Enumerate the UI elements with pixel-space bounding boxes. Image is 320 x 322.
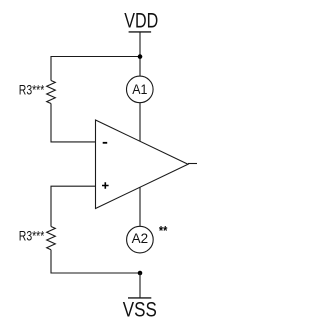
ammeter A1 <box>127 76 154 103</box>
svg-text:VSS: VSS <box>123 298 157 322</box>
power rail VSS bar <box>128 297 151 299</box>
wire resistor R3 bottom to bottom junction <box>51 250 140 273</box>
resistor R3 (top) <box>47 81 56 104</box>
junction dot bottom <box>138 271 143 276</box>
ammeter A2 <box>127 226 154 253</box>
svg-text:**: ** <box>159 224 168 238</box>
svg-text:A2: A2 <box>132 230 149 246</box>
svg-text:A1: A1 <box>132 81 147 97</box>
wire op-amp output <box>188 163 197 165</box>
non-inverting input plus sign <box>102 182 109 189</box>
svg-text:R3***: R3*** <box>19 228 45 243</box>
wire op-amp bottom edge to ammeter A2 <box>139 187 141 226</box>
power rail VDD bar <box>129 31 152 33</box>
wire resistor R3 top to inverting input <box>51 104 96 142</box>
wire non-inverting input to resistor R3 bottom <box>51 186 96 226</box>
junction dot top <box>138 54 143 59</box>
op-amp U1 <box>96 120 189 209</box>
svg-text:R3***: R3*** <box>19 82 45 97</box>
inverting input minus sign <box>103 142 108 144</box>
wire VDD to junction and ammeter A1 <box>139 32 141 76</box>
wire bottom junction to VSS rail <box>139 273 141 298</box>
svg-text:VDD: VDD <box>124 9 158 33</box>
resistor R3 (bottom) <box>47 227 56 250</box>
wire top feedback: junction to resistor R3 top <box>51 57 140 81</box>
wire ammeter A1 to op-amp top edge <box>139 103 141 142</box>
